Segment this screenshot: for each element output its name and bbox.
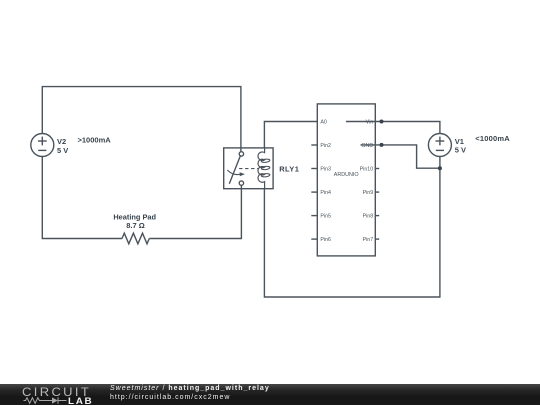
wire top-left loop: [42, 87, 241, 152]
voltage source V2: [31, 134, 54, 157]
wire coil top to A0: [264, 122, 317, 148]
relay RLY1 box: [224, 148, 273, 189]
svg-text:Pin9: Pin9: [363, 190, 374, 196]
resistor R1 Heating Pad zigzag: [122, 233, 149, 244]
pin stub Pin4: [311, 191, 317, 193]
svg-text:ARDUNIO: ARDUNIO: [334, 172, 359, 178]
svg-text:Pin7: Pin7: [363, 237, 374, 243]
footer bar: [0, 384, 540, 405]
pin stub Pin5: [311, 215, 317, 217]
pin stub Pin3: [311, 168, 317, 170]
svg-text:Pin3: Pin3: [320, 167, 331, 173]
wire GND to V1 bottom: [361, 145, 440, 168]
relay dashed link: [239, 168, 258, 170]
svg-text:5 V: 5 V: [455, 145, 466, 154]
wire resistor to relay switch bottom: [149, 185, 241, 238]
footer url text: [110, 393, 230, 402]
wire V2 bottom to resistor: [42, 157, 122, 239]
relay switch contacts: [239, 152, 243, 156]
pin stub Pin9: [375, 191, 379, 193]
op-amp U1 ARDUNIO box: [317, 104, 375, 256]
junction dot GND at box edge: [380, 143, 384, 147]
relay coil: [258, 148, 265, 189]
wire coil bottom to V1 bottom net: [264, 157, 440, 298]
svg-text:Pin8: Pin8: [363, 213, 374, 219]
pin stub Pin8: [375, 215, 379, 217]
svg-text:Pin10: Pin10: [360, 167, 374, 173]
wire Vin to V1 top: [346, 122, 440, 134]
relay switch blade: [229, 156, 240, 183]
svg-text:<1000mA: <1000mA: [475, 134, 510, 143]
svg-text:GND: GND: [361, 143, 373, 149]
svg-text:Pin6: Pin6: [320, 237, 331, 243]
svg-text:A0: A0: [320, 120, 327, 126]
pin stub Pin10: [375, 168, 379, 170]
svg-text:Vin: Vin: [366, 120, 374, 126]
svg-text:V2: V2: [57, 137, 66, 146]
logo CIRCUIT: [22, 385, 91, 399]
voltage source V1: [428, 134, 451, 157]
pin stub Pin6: [311, 238, 317, 240]
logo LAB: [68, 396, 93, 406]
relay actuation arrow: [227, 170, 240, 175]
logo resistor-diode glyph: [23, 396, 69, 405]
svg-text:5 V: 5 V: [57, 146, 68, 155]
junction dot GND net: [438, 166, 442, 170]
svg-text:Pin2: Pin2: [320, 143, 331, 149]
footer title text: [110, 384, 270, 393]
svg-text:>1000mA: >1000mA: [78, 135, 112, 144]
svg-text:RLY1: RLY1: [279, 165, 299, 174]
pin stub Pin2: [311, 144, 317, 146]
svg-text:Pin4: Pin4: [320, 190, 331, 196]
pin stub Pin7: [375, 238, 379, 240]
junction dot Vin net: [380, 120, 384, 124]
svg-text:8.7 Ω: 8.7 Ω: [126, 221, 145, 230]
svg-text:Pin5: Pin5: [320, 213, 331, 219]
